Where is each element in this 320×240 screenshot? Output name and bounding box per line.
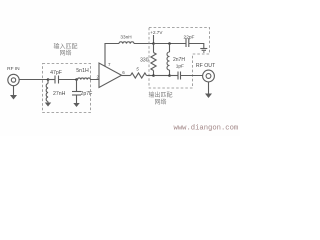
capacitor C4 1pF (series out) bbox=[170, 72, 203, 80]
output network dashed box (notched) bbox=[149, 28, 210, 89]
wire rail right to bypass cap bbox=[154, 43, 187, 45]
svg-text:+2.7V: +2.7V bbox=[150, 30, 163, 35]
capacitor C2 2p7F (shunt) bbox=[72, 80, 81, 104]
inductor L1 27nH (shunt) bbox=[46, 80, 48, 103]
ground (RF OUT) bbox=[205, 82, 212, 98]
wire rail to +2.7V node bbox=[134, 43, 154, 45]
node D junction (choke top) bbox=[168, 42, 171, 45]
wire RF IN to node A bbox=[19, 79, 48, 81]
ground (C2) bbox=[73, 103, 79, 107]
inductor L3 33nH (top rail) bbox=[119, 42, 134, 44]
svg-text:1pF: 1pF bbox=[176, 64, 184, 70]
RF OUT connector J2 bbox=[203, 70, 215, 82]
svg-text:RF IN: RF IN bbox=[7, 66, 20, 72]
svg-text:输出匹配: 输出匹配 bbox=[148, 91, 172, 99]
resistor R1 330 (bias) bbox=[151, 44, 156, 76]
svg-text:网络: 网络 bbox=[59, 49, 71, 57]
svg-text:5n1H: 5n1H bbox=[76, 68, 89, 74]
wire amp out bbox=[122, 75, 131, 77]
node A junction bbox=[47, 78, 50, 81]
svg-text:330: 330 bbox=[140, 58, 149, 64]
wire +2.7V down to rail bbox=[153, 35, 155, 43]
svg-text:www.diangon.com: www.diangon.com bbox=[174, 125, 239, 133]
node C junction (+2.7V rail) bbox=[152, 42, 155, 45]
svg-text:输入匹配: 输入匹配 bbox=[53, 43, 77, 51]
ground (C3) bbox=[200, 49, 207, 53]
svg-text:27nH: 27nH bbox=[53, 91, 66, 97]
node B junction bbox=[75, 78, 78, 81]
capacitor C1 47pF (series) bbox=[48, 76, 77, 84]
wire to node E bbox=[147, 75, 154, 77]
svg-text:47pF: 47pF bbox=[50, 70, 62, 76]
input matching dashed box bbox=[43, 64, 91, 113]
node F junction bbox=[168, 74, 171, 77]
svg-text:2n7H: 2n7H bbox=[173, 57, 185, 63]
ground (L1) bbox=[45, 103, 51, 107]
wire node E to node F bbox=[154, 75, 170, 77]
ground (RF IN) bbox=[10, 86, 17, 100]
node E junction bbox=[152, 74, 155, 77]
capacitor C3 22pF (bypass) bbox=[186, 39, 204, 49]
svg-text:RF OUT: RF OUT bbox=[196, 63, 216, 69]
op-amp U1 bbox=[99, 63, 122, 88]
svg-text:33nH: 33nH bbox=[120, 35, 131, 40]
svg-text:网络: 网络 bbox=[154, 98, 166, 106]
wire pin7 up to feedback rail bbox=[105, 44, 119, 67]
RF IN connector J1 bbox=[8, 74, 19, 85]
svg-text:2p7F: 2p7F bbox=[81, 91, 93, 97]
inductor L2 5n1H (series) bbox=[77, 78, 100, 80]
resistor R2 (series output) bbox=[131, 73, 147, 78]
inductor L4 2n7H (choke) bbox=[167, 44, 170, 76]
